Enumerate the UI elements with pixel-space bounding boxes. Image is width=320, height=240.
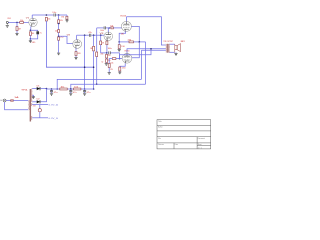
node V3 plate [108,27,110,29]
ground chain [57,53,60,55]
wire CT riser [140,50,142,79]
wire cath row [107,52,109,54]
resistor R7 [58,37,60,40]
node V3 cath junction [106,52,108,54]
wire rail right [81,88,94,90]
wire C10 stub [51,89,53,91]
svg-text:10k: 10k [74,86,78,88]
resistor R12 V3 cathode [106,41,108,45]
capacitor C1 coupling [54,14,55,17]
triode V1 [29,18,37,26]
node y67 x93.6 [93,66,95,68]
diode D2 [37,100,40,103]
node V4 cathode [118,41,120,43]
wire R20 top [118,42,120,45]
wire C11 gnd [70,92,72,93]
ground V2 cathode [74,57,77,59]
wire AC to fuse [6,100,11,102]
potentiometer RV1 [66,16,68,19]
resistor R4 plate load [45,17,47,21]
capacitor C12 [83,91,86,92]
resistor R13 tail [106,54,108,58]
node Bplus [46,88,48,90]
wire D1 to Bplus [40,88,46,90]
resistor R2 grid stopper [20,21,24,23]
ground C10 [50,94,53,96]
wire C3 to V3 grid [91,34,104,36]
svg-text:47u: 47u [87,92,91,94]
node NFB tap [150,48,152,50]
svg-text:1M: 1M [102,42,104,44]
wire R10 down [93,51,95,89]
resistor R21 screen [129,41,134,43]
wire V4 plate up [125,17,127,22]
svg-text:1 / 1: 1 / 1 [198,147,201,149]
wire V4 plate row [126,17,165,45]
node bias rail [96,83,98,85]
wire V2 plate drop [84,35,86,89]
wire lamp riser bottom [39,112,41,118]
wire bypass loop return [30,34,37,39]
svg-text:47u: 47u [54,92,58,94]
resistor R6 [58,30,60,33]
svg-text:6.3V_A: 6.3V_A [49,104,59,107]
wire R15 to V4 [113,27,122,29]
resistor R22 V5 cathode [119,67,121,71]
T1 heater coil B [30,116,33,119]
T1 primary coil [28,100,31,110]
ground CT [32,97,35,99]
T1 secondary HT coil [30,89,33,102]
svg-text:1W: 1W [110,69,112,71]
capacitor C11 [69,91,72,92]
wire R17 left [109,59,112,64]
wire rail mid [67,88,73,90]
wire R22 to gnd [119,70,121,73]
wire chain mid2 [58,33,60,37]
wire pot to gnd [66,18,68,21]
wire input to grid [8,21,19,23]
wire R18 to gnd [108,68,110,73]
pentode V4 [121,21,131,31]
wire gridleak x93.6 [93,35,95,46]
primary coil [165,44,168,53]
wire secondary top [170,43,175,45]
wire R9 to gnd [75,56,77,58]
transformer T2 core [166,44,169,53]
T1 heater coil A [31,103,34,106]
node chain mid1 [58,23,60,25]
wire heater A [32,104,48,106]
resistor R15 V4 grid [111,27,114,29]
wire CT [32,95,33,96]
node grid divider [16,22,18,24]
resistor R11 [100,41,102,45]
AC source X1 [3,99,6,102]
svg-text:Sheet: Sheet [198,143,202,146]
wire R11 down [101,45,106,53]
diode D1 [37,87,40,90]
node V3 grid [100,34,102,36]
svg-text:1M: 1M [90,48,93,50]
node V2 plate rail tap [84,34,86,36]
wire tail to gnd [106,62,108,65]
wire plate row y15 [32,14,53,16]
node V3 gridleak tap [93,34,95,36]
wire bias drop [96,28,98,52]
ground C11 [69,94,72,96]
wire screen row right [134,41,146,43]
wire R12 down [106,45,108,53]
wire V3 plate up [107,28,109,32]
ground C12 [83,94,86,96]
wire CT line [141,49,166,51]
node V2 grid tap [58,36,60,38]
ground R18 [108,73,111,75]
wire screen row [119,41,129,43]
wire C12 gnd [84,92,86,93]
svg-text:Title: Title [158,120,161,123]
node cathode [30,30,32,32]
lamp LP1 [38,109,41,112]
ground V3 tail [105,64,108,66]
wire V2 plate up [76,35,78,40]
resistor R5 [58,20,60,24]
wire R4 down to rail [46,21,93,67]
wire AC low [5,102,29,110]
node riser1 [56,88,58,90]
node V5 grid [119,58,121,60]
wire V5 cathode [120,63,125,67]
speaker LS1 [175,44,181,53]
secondary coil [168,44,171,53]
wire R1 to ground [16,31,18,34]
node x84.6 rail [84,88,86,90]
wire bypass loop [30,30,37,31]
ground at J1 [6,26,9,28]
capacitor C5 [109,51,110,54]
ground V5 cathode [118,72,121,74]
resistor R3 cathode [29,32,31,36]
wire R3 bottom [29,35,31,39]
title block frame [157,120,211,149]
wire V5 screen [132,42,139,58]
svg-text:Revision: Revision [158,144,164,146]
svg-text:File: File [158,138,161,140]
wire C11 stub [70,89,72,91]
node y67 x84.6 [84,66,86,68]
resistor R1 [16,27,18,31]
wire after C1 [56,14,67,16]
node C10 [51,88,53,90]
svg-text:Document: Document [198,137,205,140]
wire C10 gnd [51,92,53,93]
resistor R26 [74,88,81,90]
resistor R16 [96,52,98,57]
wire V5 plate up [127,49,166,54]
svg-text:Date: Date [175,143,178,146]
wire cathode to ground [29,39,31,41]
svg-text:1k: 1k [60,86,64,88]
capacitor C3 coupling [89,34,90,37]
ground speaker [174,53,177,55]
node plate R tap [46,14,48,16]
wire grid jog V2 [59,36,73,43]
capacitor C10 [50,91,53,92]
wire screen riser [145,42,147,84]
wire V3 grid leg [100,35,102,41]
wire R2 to V1 grid [23,21,28,23]
wire V4 cathode [119,31,125,42]
ground pot [65,20,68,22]
wire fuse to xfmr [13,100,28,102]
wire chain mid [58,24,60,30]
wire V1 cathode down [30,26,32,30]
wire C12 stub [84,89,86,91]
connector J1 [6,21,8,24]
resistor R18 gridleak [108,64,110,68]
resistor R10 [93,46,95,51]
wire V2 cathode down [75,48,77,51]
fuse F1 [11,100,14,102]
capacitor C4 [104,26,105,29]
wire NFB [120,49,152,59]
node cathode bottom [30,38,32,40]
resistor R20 V4 cathode [118,45,120,49]
capacitor C2 bypass [36,31,39,34]
svg-text:D1: D1 [37,85,40,87]
node screen tee [139,41,141,43]
wire V3 cathode down [106,40,108,43]
wire rail riser1 [57,79,141,89]
wire rail riser2 [71,84,146,89]
wire R16 down [96,57,98,85]
wire HT top to D1 [32,88,37,90]
wire secondary bottom [170,51,175,53]
svg-text:GND: GND [32,42,36,44]
wire HT bottom to D2 [32,101,37,103]
svg-text:Author: Author [158,126,163,129]
triode V3 [104,32,113,41]
wire V2 plate row [77,34,89,36]
wire B+ rail [47,88,60,90]
resistor R9 V2 cathode [75,52,77,56]
ground under R1 [15,33,18,35]
wire R17 to V5 [116,58,122,60]
wire C5 to corner [111,53,120,59]
svg-text:47u: 47u [73,92,77,94]
wire lamp riser top [39,105,41,109]
wire D2 up [40,89,46,102]
wire C4 to plate dot [106,27,111,29]
triode V2 [73,40,82,49]
wire tail mid [106,58,108,59]
wire R20 to gnd [118,48,120,51]
wire plate row corner [97,27,104,29]
wire junction down [16,22,18,26]
svg-text:TR2 OUTPUT: TR2 OUTPUT [163,41,173,43]
node rail x93.6 [93,88,95,90]
resistor R25 [60,88,67,90]
svg-text:1M: 1M [61,16,64,18]
wire V1 plate up [31,15,33,18]
resistor R17 V5 grid [112,58,116,60]
svg-text:D2: D2 [37,99,40,101]
wire spk gnd stub [175,51,177,54]
resistor R14 tail2 [106,59,108,63]
ground V4 cathode [118,49,121,51]
pentode V5 [122,53,132,63]
wire chain top [58,15,60,20]
wire heater B [32,117,48,119]
wire V4 screen [131,26,139,42]
ground V1 cathode [29,41,32,43]
wire pot down [66,15,68,16]
svg-text:6.3V_B: 6.3V_B [49,118,59,120]
node riser2 [70,88,72,90]
node C11 [70,88,72,90]
wire chain to gnd [58,40,60,53]
transformer T1 core [29,89,32,122]
node NFB top [58,14,60,16]
svg-text:1M: 1M [18,28,21,30]
